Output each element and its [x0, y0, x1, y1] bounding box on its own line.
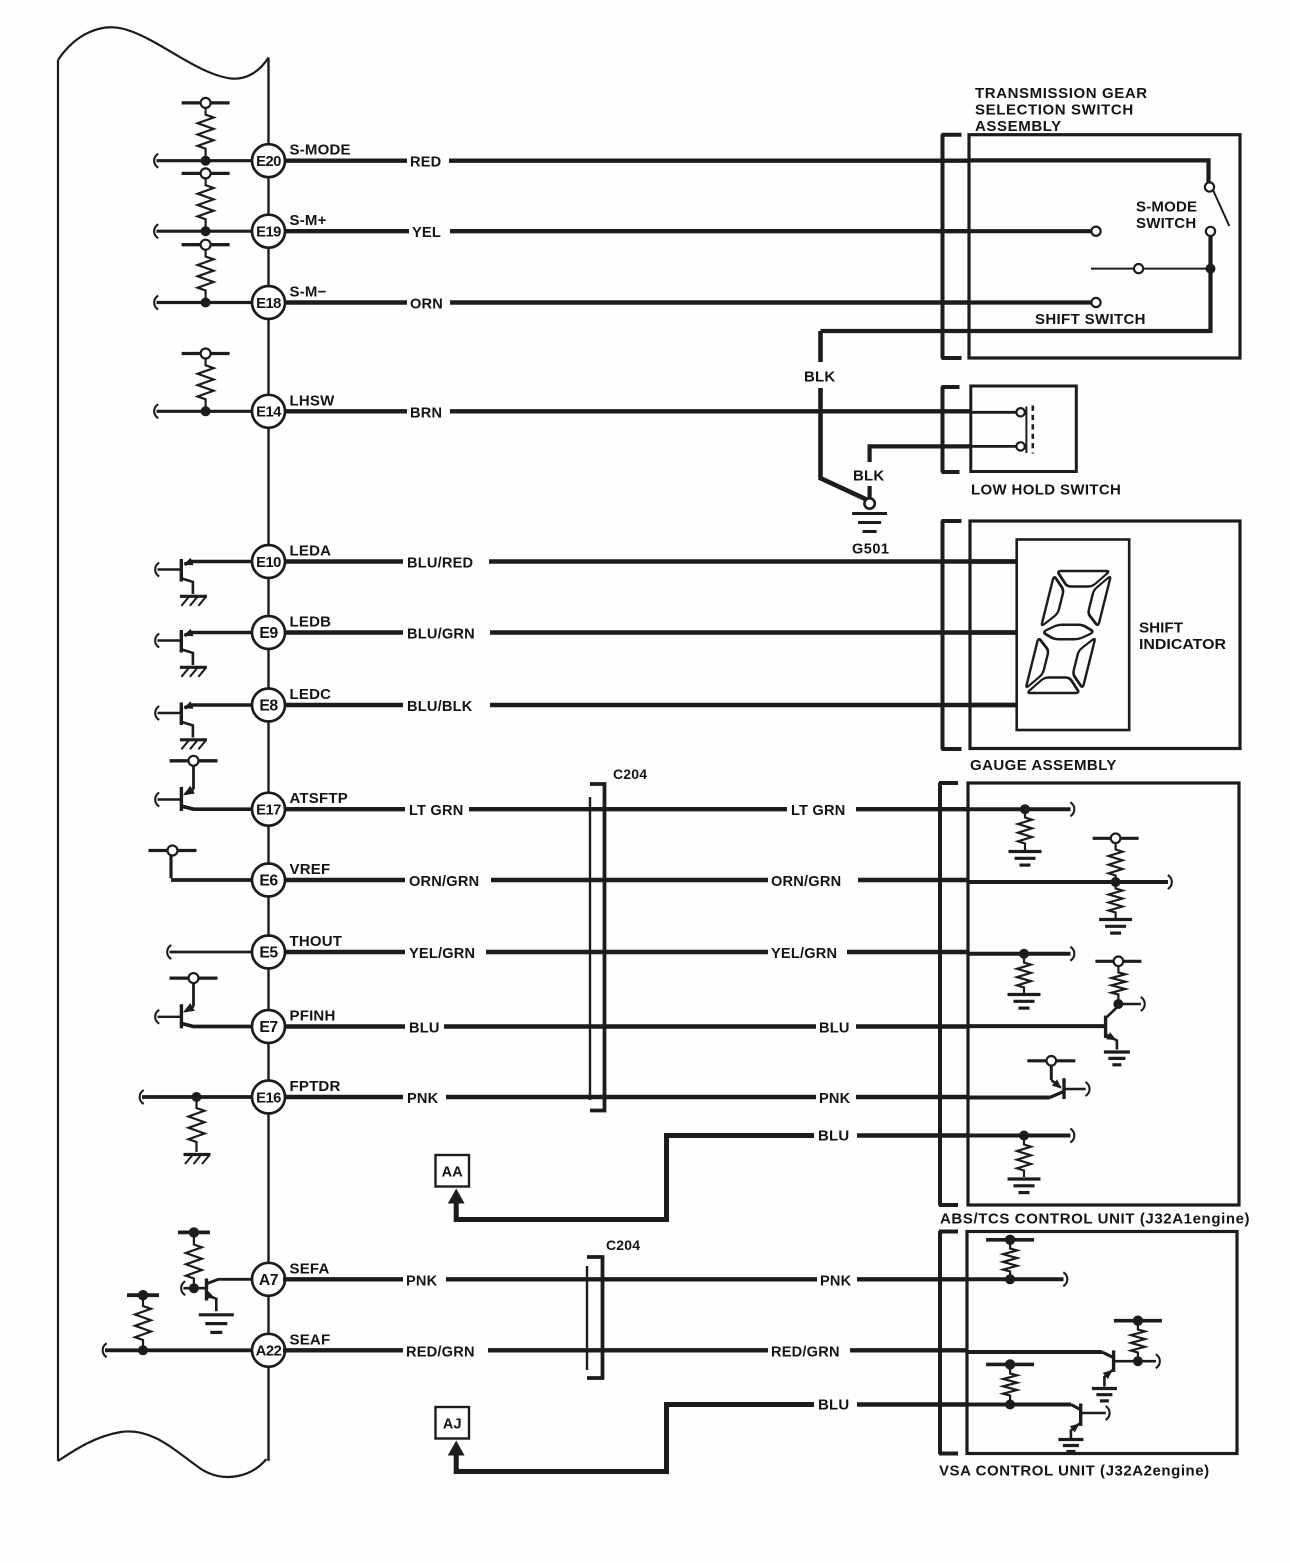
wire: common return inside assembly [821, 236, 1213, 331]
svg-text:E6: E6 [259, 873, 278, 890]
connector pin E20 [252, 144, 285, 177]
transistor Q9 (VSA, RED/GRN input) [967, 1350, 1138, 1386]
wire: PNK inside VSA [967, 1272, 1067, 1286]
svg-text:S-M+: S-M+ [290, 212, 327, 229]
transistor Q3 (LED driver for E8) [155, 701, 253, 737]
resistor R10 (ABS/TCS, ORN/GRN to ground) [1109, 882, 1123, 918]
connector bracket at ABS/TCS control unit [939, 783, 958, 1206]
svg-text:LEDC: LEDC [290, 686, 332, 703]
svg-text:ORN: ORN [410, 297, 443, 313]
svg-text:E7: E7 [259, 1019, 278, 1036]
wire YEL/GRN (E5 THOUT to ABS/TCS) [285, 946, 968, 962]
transistor Q5 (driver at pin E7) [155, 983, 253, 1028]
ground (earth) below Q10 [1058, 1440, 1083, 1452]
svg-text:SELECTION SWITCH: SELECTION SWITCH [975, 102, 1134, 119]
resistor R15 (VSA pull-up at Q9 collector) [1131, 1321, 1145, 1362]
svg-text:C204: C204 [606, 1237, 640, 1253]
box: ABS/TCS control unit [968, 783, 1239, 1205]
resistor R16 (VSA pull-up on BLU) [1003, 1364, 1017, 1404]
resistor R1 (internal pull-up at E20) [198, 108, 214, 157]
node label LEDB [290, 614, 332, 631]
wire BLU/GRN (E9 LEDB to shift indicator) [285, 627, 1017, 643]
transistor Q4 (driver at pin E17) [155, 766, 253, 811]
svg-text:ORN/GRN: ORN/GRN [771, 874, 841, 890]
box: VSA control unit [967, 1232, 1237, 1454]
wire ORN (E18 S-M- to gear selection switch) [285, 297, 969, 313]
wire: Q7 collector tap to break [1118, 997, 1144, 1011]
transistor Q6 (driver at pin A7) [181, 1279, 253, 1312]
node label SHIFT INDICATOR [1139, 620, 1226, 654]
component label GAUGE ASSEMBLY [970, 757, 1117, 774]
transistor Q10 (VSA, BLU input) [1070, 1404, 1110, 1439]
wire: S-MODE feed inside assembly [969, 160, 1209, 182]
resistor R7 (internal at A22) [135, 1295, 151, 1350]
wire: Q9 collector tap to break [1138, 1354, 1160, 1368]
wire BLU/RED (E10 LEDA to shift indicator) [285, 556, 1017, 572]
svg-text:A7: A7 [259, 1272, 279, 1289]
switch contact above Q8 [1027, 1056, 1075, 1066]
wire BLK from switch common to ground [804, 331, 867, 500]
svg-text:E19: E19 [256, 225, 281, 241]
in-line connector C204 (lower) [587, 1237, 640, 1378]
transistor Q7 (ABS/TCS, BLU input) [968, 1004, 1118, 1050]
node label ATSFTP [290, 790, 348, 807]
resistor R4 (internal pull-up at E14) [198, 359, 214, 408]
connector bracket at VSA control unit [939, 1231, 958, 1454]
resistor R6 (internal at A7) [186, 1232, 202, 1288]
svg-text:E20: E20 [256, 154, 281, 170]
ground (earth) below Q9 [1092, 1389, 1117, 1401]
box: low hold switch [971, 386, 1077, 472]
ground (chassis) at Q2 [180, 667, 207, 677]
connector pin E7 [252, 1010, 285, 1043]
wire BLU (E7 PFINH to ABS/TCS) [285, 1021, 968, 1037]
svg-text:AA: AA [442, 1165, 464, 1181]
svg-text:ORN/GRN: ORN/GRN [409, 874, 479, 890]
svg-text:ASSEMBLY: ASSEMBLY [975, 118, 1062, 135]
component label ABS/TCS CONTROL UNIT [940, 1211, 1250, 1228]
in-line connector C204 (upper) [590, 766, 647, 1111]
switch contact SW1 (internal) [182, 98, 230, 108]
connector pin E5 [252, 936, 285, 969]
svg-text:LOW HOLD SWITCH: LOW HOLD SWITCH [971, 482, 1121, 499]
node label LHSW [290, 392, 336, 409]
svg-text:YEL/GRN: YEL/GRN [409, 946, 475, 962]
wire LT GRN (E17 ATSFTP to ABS/TCS) [285, 803, 968, 819]
wire: internal lead to pin E19 [154, 224, 253, 238]
wire YEL (E19 S-M+ to gear selection switch) [285, 225, 969, 241]
component label VSA CONTROL UNIT [939, 1463, 1210, 1480]
junction on BLU (VSA) [1005, 1400, 1015, 1410]
svg-text:THOUT: THOUT [290, 933, 343, 950]
svg-text:FPTDR: FPTDR [290, 1078, 341, 1095]
wire: torn-edge left border of ECM/PCM [58, 27, 269, 1477]
resistor R2 (internal pull-up at E19) [198, 178, 214, 227]
node label S-M− [290, 284, 327, 301]
ground (chassis) at Q3 [180, 740, 207, 750]
wire PNK (E16 FPTDR to ABS/TCS) [285, 1091, 968, 1107]
svg-text:RED/GRN: RED/GRN [406, 1344, 475, 1360]
wire BLU from AA to ABS/TCS control unit [456, 1127, 968, 1219]
box: gauge assembly [970, 521, 1240, 749]
wire: LT GRN inside ABS/TCS [968, 802, 1074, 816]
switch contact SW6 above Q5 [170, 973, 218, 983]
ground G501 [852, 498, 889, 557]
svg-text:BLU/BLK: BLU/BLK [407, 699, 473, 715]
svg-text:S-MODE: S-MODE [1136, 199, 1197, 216]
off-page connector AJ (to VSA BLU) [436, 1407, 470, 1456]
connector pin E17 [252, 793, 285, 826]
svg-text:YEL/GRN: YEL/GRN [771, 946, 837, 962]
node label SEAF [290, 1331, 331, 1348]
connector pin E14 [252, 395, 285, 428]
junction on pin E19 lead [201, 226, 211, 236]
ground (earth) below R11 [1008, 995, 1041, 1009]
svg-text:SEAF: SEAF [290, 1331, 331, 1348]
ground (earth) below R13 [1008, 1179, 1041, 1193]
resistor R9 (ABS/TCS pull-up on ORN/GRN) [1109, 843, 1123, 882]
connector pin E16 [252, 1081, 285, 1114]
svg-text:BLU: BLU [818, 1127, 849, 1144]
junction on E16 lead [192, 1092, 202, 1102]
connector bracket at low hold switch [942, 387, 960, 473]
junction on YEL/GRN [1019, 949, 1029, 959]
node label THOUT [290, 933, 343, 950]
resistor R12 (ABS/TCS pull-up at Q7 collector) [1111, 966, 1125, 1004]
svg-text:INDICATOR: INDICATOR [1139, 636, 1226, 653]
connector pin A22 [252, 1334, 285, 1367]
wire: internal lead to pin E14 [154, 404, 253, 418]
svg-text:VSA CONTROL UNIT (J32A2engine): VSA CONTROL UNIT (J32A2engine) [939, 1463, 1210, 1480]
connector bracket at gear selection switch assembly [942, 134, 962, 358]
svg-text:E17: E17 [256, 803, 281, 819]
svg-text:TRANSMISSION GEAR: TRANSMISSION GEAR [975, 85, 1148, 102]
switch contact above R9 [1093, 834, 1139, 844]
switch contact SW3 (internal) [182, 240, 230, 250]
junction on ORN/GRN [1111, 877, 1121, 887]
svg-text:BLU: BLU [818, 1396, 849, 1413]
box: transmission gear selection switch assembly [969, 135, 1240, 358]
svg-text:AJ: AJ [443, 1417, 462, 1433]
svg-text:PNK: PNK [407, 1091, 439, 1107]
node label SEFA [290, 1260, 330, 1277]
junction at Q7 collector [1113, 999, 1123, 1009]
resistor R5 (internal at E16) [189, 1097, 205, 1152]
svg-text:YEL: YEL [412, 225, 441, 241]
svg-text:GAUGE ASSEMBLY: GAUGE ASSEMBLY [970, 757, 1117, 774]
shift indicator 7-segment digit [1025, 571, 1112, 693]
wire BRN (E14 LHSW to low hold switch) [285, 405, 971, 421]
svg-text:SWITCH: SWITCH [1136, 215, 1196, 232]
wire: ORN/GRN inside ABS/TCS [968, 875, 1172, 889]
svg-text:BLU/GRN: BLU/GRN [407, 627, 475, 643]
wire PNK (A7 SEFA to VSA) [283, 1273, 967, 1289]
wire: shift switch wiper branch [1091, 264, 1207, 273]
svg-text:C204: C204 [613, 766, 647, 782]
svg-text:ATSFTP: ATSFTP [290, 790, 348, 807]
node label S-MODE SWITCH [1136, 199, 1197, 233]
svg-text:SEFA: SEFA [290, 1260, 330, 1277]
ground (earth) below Q7 [1104, 1052, 1130, 1065]
svg-text:LHSW: LHSW [290, 392, 336, 409]
component label LOW HOLD SWITCH [971, 482, 1121, 499]
wire ORN/GRN (E6 VREF to ABS/TCS) [285, 874, 968, 890]
svg-text:PNK: PNK [819, 1091, 851, 1107]
svg-text:BLU: BLU [409, 1021, 440, 1037]
junction on pin E18 lead [201, 298, 211, 308]
resistor R11 (ABS/TCS, YEL/GRN to ground) [1017, 954, 1031, 993]
junction on LT GRN [1020, 804, 1030, 814]
switch contact SW7 at pin E6 (VREF) [149, 846, 254, 881]
wire: YEL feed to s-mode switch fixed contact [969, 227, 1101, 236]
svg-text:BLU: BLU [819, 1021, 850, 1037]
node label S-MODE [290, 142, 351, 159]
junction on Q6 base lead [189, 1283, 199, 1293]
connector pin E6 [252, 864, 285, 897]
svg-text:BLU/RED: BLU/RED [407, 556, 473, 572]
wire: BLU (from AJ) inside VSA [967, 1403, 1071, 1407]
svg-text:E10: E10 [256, 555, 281, 571]
transistor Q1 (LED driver for E10) [155, 558, 253, 594]
junction on PNK (VSA) [1005, 1274, 1015, 1284]
wire BLU from AJ to VSA control unit [456, 1396, 967, 1471]
ground (earth) below R10 [1099, 920, 1132, 934]
svg-text:BRN: BRN [410, 405, 442, 421]
svg-text:LEDA: LEDA [290, 543, 332, 560]
switch contact SW5 above Q4 [170, 756, 218, 766]
ground (chassis) below R5 [184, 1155, 211, 1165]
svg-text:S-M−: S-M− [290, 284, 327, 301]
wire: ORN feed to shift switch fixed contact [969, 298, 1101, 307]
svg-text:BLK: BLK [853, 468, 884, 485]
transistor Q8 (ABS/TCS, PNK driver) [968, 1066, 1090, 1099]
power rail tap above R7 [127, 1290, 159, 1300]
resistor R13 (ABS/TCS, BLU to ground) [1017, 1136, 1031, 1178]
svg-text:LEDB: LEDB [290, 614, 332, 631]
svg-text:RED/GRN: RED/GRN [771, 1344, 840, 1360]
svg-text:E9: E9 [259, 625, 278, 642]
wire: internal lead to pin E5 [167, 945, 253, 959]
wire: BLU (from AA) inside ABS/TCS [968, 1129, 1074, 1143]
svg-text:PFINH: PFINH [290, 1008, 336, 1025]
svg-text:PNK: PNK [406, 1273, 438, 1289]
svg-text:E8: E8 [259, 698, 278, 715]
junction on pin E14 lead [201, 406, 211, 416]
junction on pin E20 lead [201, 156, 211, 166]
svg-text:E5: E5 [259, 945, 278, 962]
svg-text:RED: RED [410, 155, 441, 171]
svg-text:E14: E14 [256, 405, 282, 421]
svg-text:PNK: PNK [820, 1273, 852, 1289]
resistor R3 (internal pull-up at E18) [198, 250, 214, 299]
resistor R14 (VSA pull-up on PNK) [1003, 1240, 1017, 1280]
connector pin E18 [252, 286, 285, 319]
wire: internal lead to pin A22 [103, 1343, 253, 1357]
node label PFINH [290, 1008, 336, 1025]
s-mode switch SW8 (moving contact) [1205, 182, 1229, 236]
node label VREF [290, 861, 331, 878]
connector pin E8 [252, 689, 285, 722]
power rail tap above Q6 [178, 1227, 210, 1237]
connector bracket at gauge assembly [942, 521, 962, 750]
junction at s-mode/shift switch common [1206, 264, 1216, 274]
wire: ECM/PCM pin bus (vertical) [267, 58, 269, 1462]
svg-text:BLK: BLK [804, 369, 835, 386]
node label LEDC [290, 686, 332, 703]
svg-text:E18: E18 [256, 296, 281, 312]
low hold switch SW9 contacts [971, 406, 1033, 454]
wire RED (E20 S-MODE to gear selection switch) [285, 155, 969, 171]
svg-text:LT GRN: LT GRN [791, 803, 845, 819]
connector pin E19 [252, 215, 285, 248]
ground (earth) below R8 [1009, 852, 1042, 866]
resistor R8 (ABS/TCS, LT GRN to ground) [1018, 809, 1032, 850]
svg-text:VREF: VREF [290, 861, 331, 878]
connector pin E10 [252, 545, 285, 578]
junction on A22 lead [138, 1345, 148, 1355]
wire BLU/BLK (E8 LEDC to shift indicator) [285, 699, 1017, 715]
wire: internal lead to pin E16 [140, 1090, 253, 1104]
power rail tap above R14 [986, 1235, 1034, 1245]
svg-text:S-MODE: S-MODE [290, 142, 351, 159]
junction at Q9 collector [1133, 1356, 1143, 1366]
connector pin E9 [252, 616, 285, 649]
power rail tap above R15 [1114, 1316, 1162, 1326]
component: transmission gear selection switch assembly (title) [975, 85, 1148, 135]
svg-text:LT GRN: LT GRN [409, 803, 463, 819]
wire: YEL/GRN inside ABS/TCS [968, 947, 1074, 961]
wire: internal lead to pin E20 [154, 154, 253, 168]
switch contact SW4 (internal) [182, 349, 230, 359]
svg-text:G501: G501 [852, 542, 889, 558]
junction on BLU (AA) [1019, 1131, 1029, 1141]
node label FPTDR [290, 1078, 341, 1095]
svg-text:SHIFT SWITCH: SHIFT SWITCH [1035, 311, 1146, 328]
svg-text:A22: A22 [256, 1344, 282, 1360]
wire RED/GRN (A22 SEAF to VSA) [283, 1344, 967, 1360]
box: shift indicator display [1017, 540, 1129, 731]
svg-text:SHIFT: SHIFT [1139, 620, 1184, 637]
off-page connector AA (to ABS/TCS BLU) [436, 1155, 470, 1204]
ground (earth) below Q6 [199, 1315, 234, 1333]
wires: LED feeds into shift indicator [970, 562, 1017, 706]
switch contact above R12 [1095, 957, 1141, 967]
node label LEDA [290, 543, 332, 560]
ground (chassis) at Q1 [180, 596, 207, 606]
connector pin A7 [252, 1263, 285, 1296]
transistor Q2 (LED driver for E9) [155, 629, 253, 665]
wire BLK from low hold switch to ground [853, 446, 971, 498]
wire: internal lead to pin E18 [154, 296, 253, 310]
svg-text:E16: E16 [256, 1090, 281, 1106]
power rail tap above R16 [986, 1359, 1034, 1369]
node label SHIFT SWITCH [1035, 311, 1146, 328]
switch contact SW2 (internal) [182, 168, 230, 178]
node label S-M+ [290, 212, 327, 229]
svg-text:ABS/TCS CONTROL UNIT (J32A1eng: ABS/TCS CONTROL UNIT (J32A1engine) [940, 1211, 1250, 1228]
